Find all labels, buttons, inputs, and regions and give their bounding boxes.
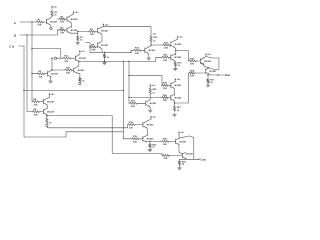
wire Q18 collector bbox=[179, 152, 182, 154]
wire Q4 collector bbox=[47, 96, 50, 98]
wire Q4b emitter bbox=[46, 114, 48, 117]
wire A input bbox=[20, 21, 36, 23]
wire Q3 collector bbox=[71, 26, 72, 29]
wire Q13 collector bbox=[148, 94, 151, 100]
svg-text:10K: 10K bbox=[91, 50, 95, 52]
wire R23 to Q13 base bbox=[138, 102, 146, 104]
wire V131 jog bbox=[131, 50, 134, 52]
transistor Q7 bbox=[145, 47, 156, 53]
svg-text:Cout: Cout bbox=[200, 159, 206, 162]
wire Q11 collector bbox=[201, 57, 207, 60]
transistor Q4 bbox=[43, 98, 54, 104]
wire R20 stub bbox=[179, 159, 181, 160]
power +5v Q17 bbox=[178, 131, 185, 134]
resistor R24 bbox=[149, 87, 157, 94]
svg-text:10K: 10K bbox=[190, 64, 194, 66]
svg-text:1k: 1k bbox=[107, 57, 110, 59]
svg-text:10K: 10K bbox=[38, 76, 42, 78]
junction V52 rowA bbox=[51, 58, 52, 59]
resistor R11 bbox=[63, 56, 71, 63]
transistor Q1 bbox=[47, 18, 58, 24]
wire Q5 emitter bbox=[101, 34, 102, 42]
svg-text:10K: 10K bbox=[33, 104, 37, 106]
ground R17 bbox=[206, 84, 210, 87]
svg-text:10K: 10K bbox=[66, 73, 70, 75]
node xor1 out bbox=[77, 31, 78, 32]
wire Q17 loop bbox=[179, 136, 194, 159]
wire R11b to Q8b base bbox=[72, 69, 75, 71]
svg-text:BC547: BC547 bbox=[175, 96, 183, 99]
resistor R22 bbox=[149, 143, 157, 148]
svg-text:1k: 1k bbox=[54, 15, 57, 17]
wire R19b to Q20 base bbox=[169, 97, 171, 99]
svg-text:BC547: BC547 bbox=[204, 60, 212, 63]
wire to R16 bbox=[176, 51, 189, 62]
wire R10 to Q7 base bbox=[142, 49, 145, 51]
junction A stage3 bbox=[31, 48, 32, 49]
wire xor1 pulldown bbox=[77, 33, 79, 35]
svg-text:BC547: BC547 bbox=[51, 73, 59, 76]
wire Q12 emitter to Sum bbox=[209, 73, 224, 76]
resistor R11b bbox=[65, 67, 73, 74]
svg-text:BC547: BC547 bbox=[47, 101, 55, 104]
junction H90 V120 bbox=[123, 90, 124, 91]
transistor Q8b bbox=[74, 67, 85, 73]
wire V90 stub bbox=[86, 43, 91, 53]
svg-text:1k: 1k bbox=[177, 110, 180, 112]
junction Q7 collector bbox=[150, 44, 151, 45]
wire V127 jog bbox=[127, 125, 129, 128]
resistor R8 bbox=[90, 44, 96, 51]
svg-text:1k: 1k bbox=[49, 122, 52, 124]
wire Q2 emitter bbox=[71, 22, 72, 27]
svg-text:BC547: BC547 bbox=[175, 84, 183, 87]
svg-text:B: B bbox=[14, 33, 16, 37]
junction A QN bbox=[31, 73, 32, 74]
power +5v Q9 bbox=[177, 36, 184, 39]
transistor Q18 bbox=[182, 152, 186, 158]
svg-text:R4: R4 bbox=[33, 98, 37, 101]
svg-text:10K: 10K bbox=[90, 34, 94, 36]
resistor R13v bbox=[103, 54, 109, 59]
svg-text:10K: 10K bbox=[135, 53, 139, 55]
svg-text:1k: 1k bbox=[178, 65, 181, 67]
svg-text:BC547: BC547 bbox=[175, 43, 183, 46]
svg-text:R5: R5 bbox=[60, 16, 64, 18]
wire A to stage3 bbox=[32, 49, 61, 59]
svg-text:BC547: BC547 bbox=[101, 44, 109, 47]
wire Q8a collector bbox=[79, 53, 80, 55]
wire H97 to xor4 row2 bbox=[129, 97, 162, 99]
svg-text:BC547: BC547 bbox=[79, 57, 87, 60]
wire Q7 collector bbox=[148, 42, 151, 47]
wire B input bbox=[20, 30, 59, 35]
junction R17 bbox=[207, 74, 208, 75]
resistor R19 bbox=[132, 136, 140, 143]
svg-text:10K: 10K bbox=[163, 144, 167, 146]
resistor R3 bbox=[51, 10, 58, 17]
svg-text:R24: R24 bbox=[152, 88, 157, 91]
wire R5 to Q2 base bbox=[66, 18, 67, 20]
svg-text:10K: 10K bbox=[129, 127, 133, 129]
svg-text:BC547: BC547 bbox=[210, 70, 218, 73]
svg-text:10K: 10K bbox=[163, 158, 167, 160]
svg-text:10K: 10K bbox=[60, 22, 64, 24]
junction V129 H75 bbox=[128, 75, 129, 76]
resistor R20 bbox=[178, 160, 186, 165]
ground R15 bbox=[173, 67, 177, 70]
svg-text:A: A bbox=[14, 21, 17, 25]
power +5v Q8a bbox=[79, 50, 86, 53]
svg-text:R19: R19 bbox=[163, 83, 168, 85]
wire R6 to Q3 base bbox=[66, 29, 67, 31]
svg-text:BC547: BC547 bbox=[149, 49, 157, 52]
svg-text:R21: R21 bbox=[177, 107, 182, 109]
transistor Q19 bbox=[171, 82, 182, 88]
wire Q20 emitter bbox=[173, 101, 175, 103]
svg-text:R16: R16 bbox=[190, 58, 195, 60]
svg-text:10K: 10K bbox=[60, 33, 64, 35]
power +5v Q4 bbox=[49, 93, 56, 96]
wire R26 to Q18 base bbox=[170, 155, 182, 157]
wire Q8b emitter bbox=[77, 73, 80, 77]
svg-text:R9: R9 bbox=[90, 29, 94, 31]
wire Q7 out bbox=[151, 44, 163, 46]
resistor R10 bbox=[134, 48, 142, 55]
wire Q19 collector bbox=[174, 80, 175, 83]
svg-text:10K: 10K bbox=[163, 88, 167, 90]
svg-text:BC547: BC547 bbox=[175, 56, 183, 59]
junction V52 QN bbox=[51, 69, 52, 70]
svg-text:R11: R11 bbox=[64, 56, 69, 58]
svg-text:+5v: +5v bbox=[179, 37, 183, 39]
power +5v Q2 bbox=[73, 11, 80, 14]
wire Q5 collector bbox=[101, 26, 104, 29]
resistor R14 bbox=[162, 54, 170, 62]
svg-text:10K: 10K bbox=[37, 25, 41, 27]
svg-text:10K: 10K bbox=[131, 106, 135, 108]
junction gnd H61 bbox=[104, 61, 105, 62]
node Cout dot bbox=[198, 159, 199, 160]
resistor R15 bbox=[174, 61, 182, 67]
wire W1 xor2 out bbox=[47, 115, 112, 117]
power +5v Q1 bbox=[51, 6, 58, 9]
transistor Q14 bbox=[143, 121, 154, 127]
wire R9 to Q5 base bbox=[96, 31, 98, 33]
wire xor2 pulldown stub bbox=[46, 116, 48, 118]
wire Q14 emitter bbox=[146, 128, 147, 136]
svg-text:1k: 1k bbox=[210, 82, 213, 84]
wire Q4 emitter bbox=[46, 105, 49, 108]
wire R13v to gnd bbox=[104, 59, 106, 62]
resistor R6 bbox=[59, 27, 66, 34]
ground R21v bbox=[173, 113, 177, 116]
svg-text:1k: 1k bbox=[152, 146, 155, 148]
svg-text:R18: R18 bbox=[190, 70, 195, 72]
node stage3b circle bbox=[79, 83, 81, 85]
wire A to RN bbox=[32, 73, 37, 75]
junction V129 H97 bbox=[128, 97, 129, 98]
svg-text:BC547: BC547 bbox=[47, 111, 55, 114]
svg-text:C in: C in bbox=[9, 44, 14, 48]
svg-text:10K: 10K bbox=[64, 61, 68, 63]
wire Rsum to Q12 base bbox=[195, 72, 206, 74]
wire Q6 collector bbox=[101, 40, 102, 43]
wire Q11 emitter bbox=[201, 63, 210, 67]
wire Q17 emitter bbox=[178, 145, 180, 153]
svg-text:10K: 10K bbox=[163, 100, 167, 102]
svg-text:+5v: +5v bbox=[75, 12, 79, 14]
transistor Q5 bbox=[98, 27, 109, 33]
wire Q8b collector bbox=[77, 65, 79, 68]
power +5v Q19 bbox=[175, 78, 182, 81]
wire Q1 emitter lead bbox=[49, 25, 52, 27]
node stage3 circle bbox=[54, 57, 56, 59]
junction Q9 emitter bbox=[175, 50, 176, 51]
svg-text:+5v: +5v bbox=[180, 132, 184, 134]
wire R17 stub bbox=[207, 75, 209, 79]
svg-text:R12: R12 bbox=[153, 37, 158, 39]
svg-text:10K: 10K bbox=[133, 142, 137, 144]
svg-text:10K: 10K bbox=[163, 60, 167, 62]
wire R2b to Q4 base bbox=[40, 101, 43, 103]
transistor Q10 bbox=[171, 54, 182, 60]
wire R25 to Q17 base bbox=[169, 140, 175, 142]
transistor Q12 bbox=[206, 68, 217, 74]
svg-text:+5v: +5v bbox=[207, 54, 211, 56]
svg-text:R2: R2 bbox=[38, 71, 42, 73]
wire Q6 emitter bbox=[101, 48, 102, 52]
junction xor3 mid bbox=[78, 61, 79, 62]
transistor Q20 bbox=[171, 94, 182, 100]
svg-text:10K: 10K bbox=[164, 48, 168, 50]
wire R4b to Q4b base bbox=[40, 111, 43, 113]
wire Q20 collector bbox=[173, 94, 175, 95]
junction V90 R8 bbox=[89, 46, 90, 47]
transistor Q17 bbox=[176, 138, 187, 144]
junction Cin H90 bbox=[23, 90, 24, 91]
resistor R19b bbox=[162, 95, 169, 102]
wire Q12 collector bbox=[206, 68, 210, 70]
wire Cin input bbox=[19, 45, 25, 47]
svg-text:+5v: +5v bbox=[81, 51, 85, 53]
resistor R5 bbox=[59, 16, 66, 23]
svg-text:+5v: +5v bbox=[152, 33, 156, 35]
svg-text:1k: 1k bbox=[152, 92, 155, 94]
transistor Q2 bbox=[67, 16, 78, 22]
resistor RN bbox=[37, 71, 45, 78]
wire QN emitter bbox=[50, 77, 53, 79]
svg-text:R6: R6 bbox=[33, 109, 37, 111]
svg-text:BC547: BC547 bbox=[179, 140, 187, 143]
svg-text:10K: 10K bbox=[33, 114, 37, 116]
junction H61 V120 bbox=[123, 61, 124, 62]
transistor Q6 bbox=[98, 42, 109, 48]
svg-text:+5v: +5v bbox=[152, 117, 156, 119]
wire V120 to R19 bbox=[123, 138, 131, 140]
svg-text:BC547: BC547 bbox=[78, 69, 86, 72]
junction B tap bbox=[26, 34, 27, 35]
node xor2 out bbox=[46, 115, 47, 116]
wire Q11 loop bbox=[206, 57, 219, 70]
power +5v Q5 bbox=[103, 23, 110, 26]
junction R22 bbox=[149, 141, 150, 142]
resistor R21v bbox=[173, 106, 181, 112]
transistor Q13 bbox=[146, 100, 157, 106]
resistor R26 bbox=[162, 154, 170, 160]
wire R14 to Q10 base bbox=[170, 56, 171, 58]
wire Q7 emitter bbox=[147, 54, 150, 57]
junction H52 V131 bbox=[130, 52, 131, 53]
svg-text:+5v: +5v bbox=[105, 24, 109, 26]
svg-text:BC547: BC547 bbox=[71, 18, 79, 21]
resistor R19a bbox=[162, 83, 169, 90]
svg-text:R1: R1 bbox=[37, 19, 41, 21]
wire B vertical bus bbox=[27, 35, 32, 112]
wire R11 to Q8a base bbox=[71, 57, 75, 59]
wire R19a to Q19 base bbox=[169, 84, 171, 86]
wire Q1 collector bbox=[50, 17, 52, 19]
wire Q10 collector bbox=[174, 53, 176, 56]
resistor Rsum bbox=[189, 70, 196, 77]
wire R14v to circle bbox=[79, 81, 81, 84]
svg-text:BC547: BC547 bbox=[50, 20, 58, 23]
svg-text:BC547: BC547 bbox=[150, 102, 158, 105]
resistor R23 bbox=[130, 101, 138, 108]
wire H61 bus bbox=[79, 61, 124, 138]
svg-text:+5v: +5v bbox=[151, 85, 155, 87]
node xor2 circle bbox=[46, 124, 48, 126]
wire Q2 collector bbox=[71, 14, 74, 16]
resistor R18 bbox=[128, 122, 136, 129]
resistor R13 bbox=[163, 42, 171, 49]
node Q1 emitter circle bbox=[50, 27, 52, 29]
svg-text:1k: 1k bbox=[80, 39, 83, 41]
svg-text:1k: 1k bbox=[153, 40, 156, 42]
wire H75 to xor4 row1 bbox=[129, 76, 162, 86]
resistor R25 bbox=[161, 139, 169, 146]
svg-text:R20: R20 bbox=[163, 95, 168, 97]
wire H52 bus bbox=[90, 51, 131, 53]
ground R20 bbox=[178, 165, 182, 170]
node Sum bbox=[217, 74, 218, 75]
transistor Q11 bbox=[201, 58, 212, 64]
wire Q9 collector bbox=[174, 39, 178, 41]
svg-text:R11: R11 bbox=[66, 67, 71, 69]
svg-text:BC547: BC547 bbox=[147, 138, 155, 141]
svg-text:1k: 1k bbox=[82, 80, 85, 82]
wire H61 to V156 bbox=[123, 57, 161, 61]
transistor Q3 bbox=[67, 27, 78, 33]
wire xor4 pulldown stub bbox=[174, 103, 176, 106]
transistor Q8a bbox=[75, 55, 86, 61]
junction R13v top bbox=[104, 52, 105, 53]
wire Q4b collector bbox=[46, 107, 49, 109]
transistor Q4b bbox=[43, 108, 54, 114]
wire H90 bus bbox=[24, 89, 123, 91]
svg-text:BC547: BC547 bbox=[101, 29, 109, 32]
wire RN to QN base bbox=[45, 73, 48, 75]
wire V52 down bbox=[52, 58, 65, 70]
transistor Q9 bbox=[171, 41, 182, 47]
wire rail H27 bbox=[104, 27, 152, 36]
wire Cout rail bbox=[180, 158, 199, 160]
svg-text:+5v: +5v bbox=[177, 79, 181, 81]
resistor R17 bbox=[207, 79, 215, 84]
ground R22 bbox=[148, 148, 152, 151]
wire Q14 collector bbox=[146, 119, 151, 121]
wire R16 to Q11 base bbox=[197, 60, 201, 62]
junction A tap bbox=[31, 21, 32, 22]
resistor R16 bbox=[189, 58, 198, 65]
wire Q10 emitter bbox=[174, 60, 175, 63]
wire R5 stub bbox=[57, 18, 59, 20]
svg-text:+5v: +5v bbox=[51, 94, 55, 96]
wire R13v stub bbox=[104, 52, 106, 53]
wire A vertical bus bbox=[31, 22, 33, 102]
svg-text:10K: 10K bbox=[190, 76, 194, 78]
ground Q6 leg bbox=[103, 61, 107, 64]
power +5v Q11 bbox=[205, 53, 212, 56]
wire Q18 emitter bbox=[186, 158, 187, 161]
wire R8 to Q6 base bbox=[97, 46, 98, 48]
ground Q13 bbox=[148, 108, 152, 112]
wire R1 to Q1 base bbox=[44, 21, 47, 23]
wire R18 to Q14 base bbox=[136, 124, 143, 126]
wire R13 to Q9 base bbox=[170, 44, 172, 46]
wire xor1 out to R9 bbox=[78, 31, 89, 33]
wire Q3 emitter bbox=[71, 32, 78, 34]
wire W2 bbox=[47, 126, 128, 127]
svg-text:+5v: +5v bbox=[53, 7, 57, 9]
power +5v Q14 bbox=[150, 116, 157, 119]
ground QN bbox=[49, 79, 53, 83]
wire Q19 emitter bbox=[173, 89, 175, 96]
svg-text:1k: 1k bbox=[182, 164, 185, 166]
resistor R1 bbox=[36, 19, 44, 26]
wire V110 bus bbox=[112, 116, 162, 156]
resistor R2b bbox=[32, 98, 40, 106]
resistor R7b bbox=[46, 118, 52, 125]
svg-text:BC547: BC547 bbox=[186, 153, 194, 156]
wire R22 stub bbox=[149, 141, 151, 143]
wire Q13 emitter bbox=[148, 107, 151, 108]
resistor R14v bbox=[79, 77, 85, 82]
wire Q9 emitter bbox=[174, 47, 176, 55]
svg-text:BC547: BC547 bbox=[147, 124, 155, 127]
junction xor4 out bbox=[174, 102, 175, 103]
wire V129 bus bbox=[128, 61, 131, 103]
transistor QN bbox=[48, 71, 59, 77]
wire R19 to Q15 base bbox=[140, 138, 143, 140]
svg-text:R3: R3 bbox=[54, 12, 58, 14]
resistor R12 bbox=[150, 35, 158, 42]
wire Q15 collector bbox=[146, 135, 147, 137]
wire Q8a emitter bbox=[78, 61, 80, 66]
resistor R4b bbox=[32, 109, 40, 116]
ground Q3 emitter bbox=[76, 41, 80, 44]
wire Cin vertical bus bbox=[24, 46, 123, 137]
svg-text:Sum: Sum bbox=[225, 74, 231, 77]
ground Q7 bbox=[147, 57, 151, 60]
resistor R7 bbox=[77, 36, 84, 42]
wire Q17 collector bbox=[178, 134, 180, 138]
svg-text:R6: R6 bbox=[60, 27, 64, 29]
junction H61 V129 bbox=[128, 61, 129, 62]
wire Q15 emitter bbox=[146, 140, 161, 143]
power +5v Q13 bbox=[149, 84, 156, 87]
transistor Q15 bbox=[143, 136, 154, 142]
